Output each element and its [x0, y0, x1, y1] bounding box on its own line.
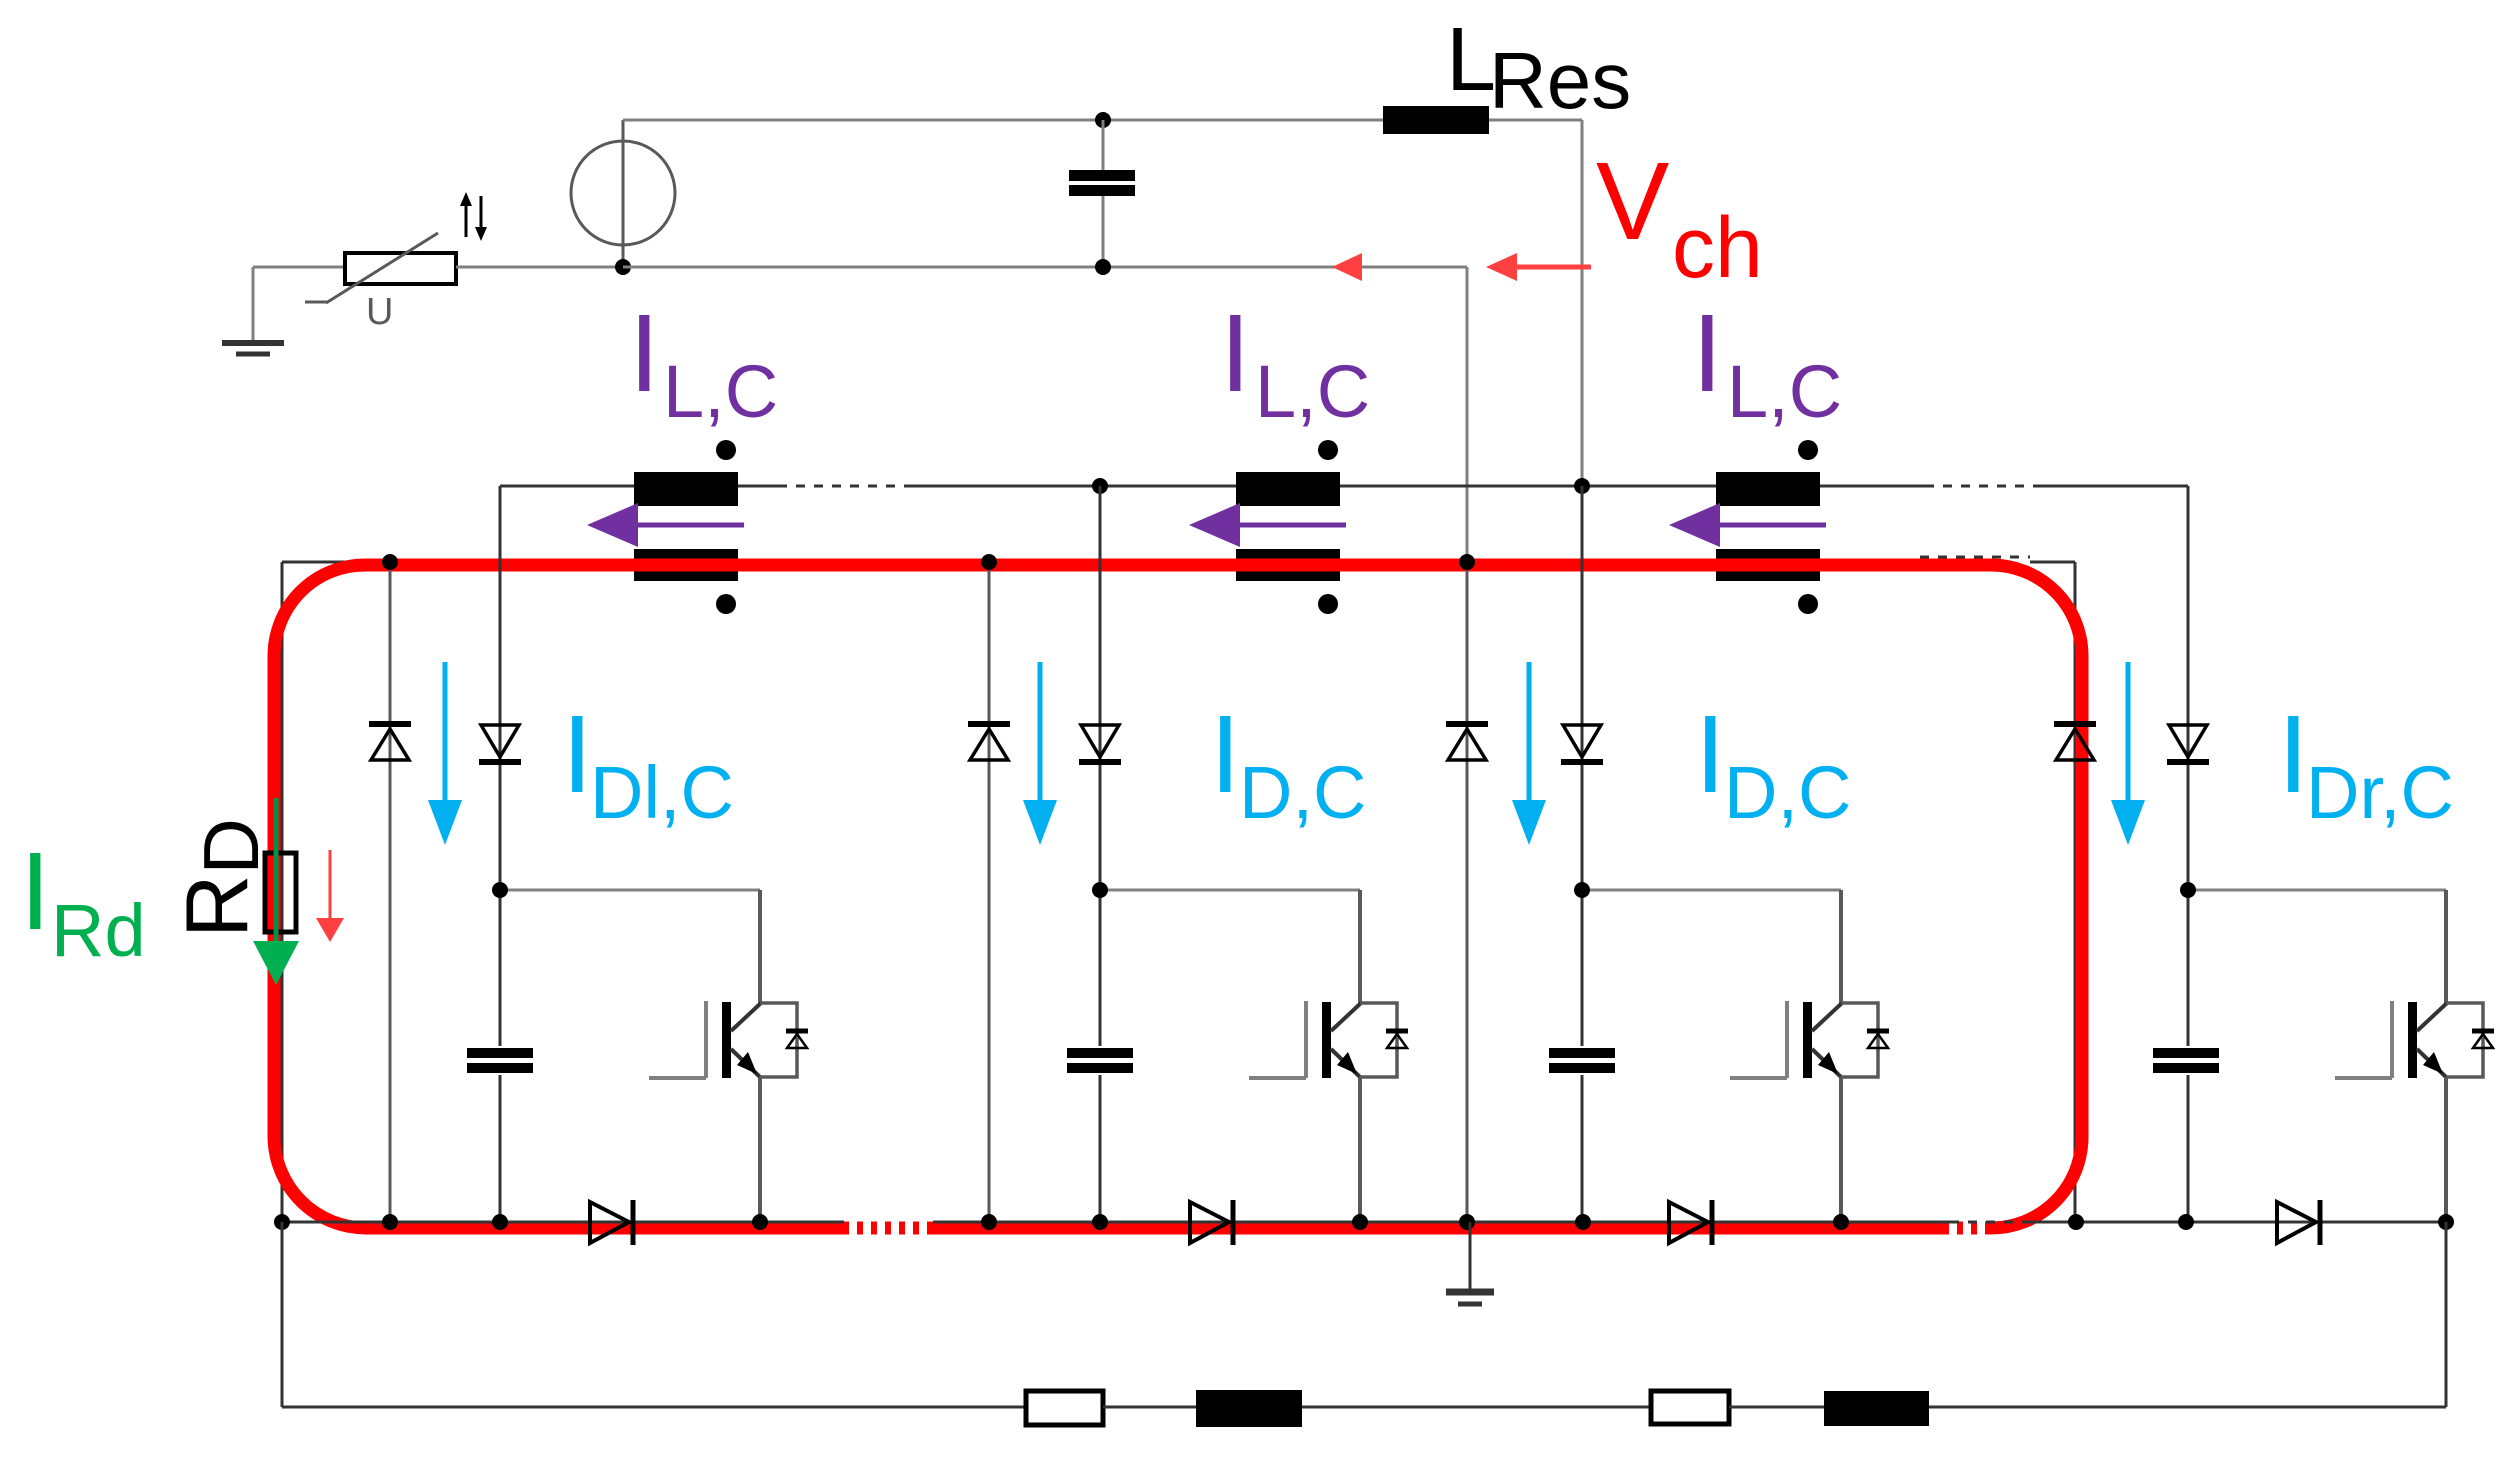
resistor (white box) #1: [1026, 1391, 1103, 1425]
right secondary column x=2075: [2074, 562, 2077, 1222]
coupled inductor L2 windings: [1236, 472, 1340, 581]
current source (circle): [571, 120, 675, 267]
svg-text:ch: ch: [1672, 200, 1763, 296]
diode D2a (conducting up): [968, 724, 1010, 760]
capacitor C2: [1067, 1046, 1133, 1075]
return bus wire 3: [1302, 1406, 1651, 1409]
return bus wire 5: [1929, 1406, 2446, 1409]
node secondary x=989: [981, 554, 997, 570]
return bus wire 4: [1729, 1406, 1824, 1409]
node cell1 x=500 y=890: [492, 882, 508, 898]
diode column (right) cell4 x=2188: [2187, 486, 2190, 1222]
wire cell4 cap-node to IGBT collector: [2188, 889, 2446, 892]
bottom bus (left): [282, 1221, 844, 1224]
svg-text:I: I: [1210, 693, 1241, 816]
ground (middle): [1446, 1222, 1494, 1304]
capacitor C4: [2153, 1046, 2219, 1075]
diode D1a (conducting up): [369, 724, 411, 760]
secondary bus wire: [282, 561, 1920, 564]
red loop dashed segment right-bottom: [1948, 1222, 1991, 1235]
diode D2b (conducting down): [1079, 725, 1121, 762]
wire ground to varistor: [253, 266, 346, 269]
wire cell2 cap-node to IGBT collector: [1100, 889, 1360, 892]
node cell4 x=2188 y=890: [2180, 882, 2196, 898]
series diode Ds2 (bottom bus): [1190, 1200, 1233, 1245]
label I_D,C #3: [1695, 693, 1851, 834]
series diode Ds3 (bottom bus): [1669, 1200, 1712, 1245]
red current loop (bottom-left/left): [274, 565, 844, 1228]
purple current arrow I_L,C #1: [587, 503, 744, 547]
secondary bus wire right: [2030, 561, 2075, 564]
green current line I_Rd: [253, 798, 299, 985]
purple current arrow I_L,C #2: [1189, 503, 1346, 547]
ground (input side): [222, 267, 284, 354]
diode column (right) cell3 x=1582: [1581, 486, 1584, 1222]
node primary bus x=1581: [1574, 478, 1590, 494]
node bottom bus x=989: [981, 1214, 997, 1230]
label I_L,C #1: [629, 292, 778, 433]
node bottom bus x=1467: [1459, 1214, 1475, 1230]
svg-text:I: I: [1692, 292, 1723, 415]
blue current arrow #2: [1023, 662, 1057, 845]
inductor L3 dot bottom: [1798, 594, 1818, 614]
label RD (rotated): [167, 818, 275, 938]
node top of C0: [1095, 112, 1111, 128]
label U: [366, 291, 393, 333]
inductor L1 dot top: [716, 440, 736, 460]
node bottom bus x=390: [382, 1214, 398, 1230]
capacitor C3: [1549, 1046, 1615, 1075]
capacitor C1: [467, 1046, 533, 1075]
svg-text:Dr,C: Dr,C: [2306, 751, 2454, 834]
wire cell1 cap-node to IGBT collector: [500, 889, 760, 892]
inductor (black box) #2: [1824, 1391, 1929, 1426]
inductor LRes: [1383, 106, 1489, 134]
svg-text:I: I: [20, 830, 51, 953]
series diode Ds1 (bottom bus): [590, 1200, 633, 1245]
red return arrow (small): [316, 850, 344, 942]
primary bus wire (left solid): [500, 485, 778, 488]
node bottom bus x=2446: [2438, 1214, 2454, 1230]
label Vch: [1596, 140, 1763, 296]
varistor U (variable resistor): [305, 233, 456, 303]
node cell3 x=1582 y=890: [1574, 882, 1590, 898]
svg-text:I: I: [1695, 693, 1726, 816]
resistor RD box: [265, 853, 296, 932]
node secondary x=390: [382, 554, 398, 570]
svg-text:D,C: D,C: [1724, 751, 1851, 834]
bottom bus (right): [2030, 1221, 2446, 1224]
IGBT Q2: [1249, 890, 1408, 1222]
wire varistor to source node: [456, 266, 623, 269]
diode D4b (conducting down): [2167, 725, 2209, 762]
capacitor C0: [1069, 120, 1135, 267]
label I_D,C #2: [1210, 693, 1366, 834]
primary bus wire (right): [2035, 485, 2188, 488]
svg-text:I: I: [562, 693, 593, 816]
red current loop (top/right): [365, 565, 2082, 1228]
red arrow with tail (Vch current): [1486, 253, 1591, 281]
primary bus dashed gap 1: [778, 485, 905, 488]
red loop dashed segment left-bottom: [844, 1222, 933, 1235]
coupled inductor L3 windings: [1716, 472, 1820, 581]
wire Vch vertical (x=1582 upper): [1581, 120, 1584, 486]
svg-text:Rd: Rd: [51, 889, 146, 972]
svg-text:L,C: L,C: [1727, 350, 1842, 433]
red arrowhead on mid wire: [1332, 253, 1362, 281]
svg-text:I: I: [629, 292, 660, 415]
label I_L,C #2: [1220, 292, 1370, 433]
label I_L,C #3: [1692, 292, 1842, 433]
inductor L2 dot bottom: [1318, 594, 1338, 614]
label LRes: [1446, 10, 1631, 125]
node bottom bus x=1841: [1833, 1214, 1849, 1230]
red loop bottom middle: [933, 1222, 1948, 1235]
primary bus dashed gap 2: [1925, 485, 2035, 488]
blue current arrow #4: [2111, 662, 2145, 845]
node bottom bus x=2076: [2068, 1214, 2084, 1230]
return bus wire 2: [1103, 1406, 1196, 1409]
node cell2 x=1100 y=890: [1092, 882, 1108, 898]
label I_Rd: [20, 830, 146, 972]
diode column (right) cell1 x=500: [499, 486, 502, 1222]
svg-text:I: I: [2278, 693, 2309, 816]
svg-text:U: U: [366, 291, 393, 333]
inductor L3 dot top: [1798, 440, 1818, 460]
node at source bottom: [615, 259, 631, 275]
left column wire x=282: [281, 562, 284, 1222]
svg-text:D,C: D,C: [1239, 751, 1366, 834]
purple current arrow I_L,C #3: [1669, 503, 1826, 547]
inductor (black box) #1: [1196, 1390, 1302, 1427]
return bus left drop: [281, 1222, 284, 1407]
svg-text:V: V: [1596, 140, 1669, 263]
node bottom bus x=282: [274, 1214, 290, 1230]
diode D3a (conducting up): [1446, 724, 1488, 760]
svg-text:L,C: L,C: [1255, 350, 1370, 433]
diode column (left) cell1 x=390: [389, 562, 392, 1222]
return bus right riser: [2445, 1222, 2448, 1407]
label I_Dl,C: [562, 693, 734, 834]
blue current arrow #3: [1512, 662, 1546, 845]
wire source top to LRes: [623, 119, 1384, 122]
node bottom bus x=2186: [2178, 1214, 2194, 1230]
label I_Dr,C: [2278, 693, 2454, 834]
diode column (left) cell3 x=1467: [1466, 562, 1469, 1222]
node primary bus x=1100: [1092, 478, 1108, 494]
svg-text:Dl,C: Dl,C: [590, 751, 734, 834]
svg-text:L,C: L,C: [663, 350, 778, 433]
IGBT Q1: [649, 890, 808, 1222]
inductor L1 dot bottom: [716, 594, 736, 614]
wire LRes to right corner: [1489, 119, 1582, 122]
blue current arrow #1: [428, 662, 462, 845]
svg-text:Res: Res: [1489, 36, 1631, 125]
node bottom bus x=1100: [1092, 1214, 1108, 1230]
diode D4a (conducting up): [2054, 724, 2096, 760]
up-down arrows: [460, 192, 487, 241]
node bottom bus x=760: [752, 1214, 768, 1230]
return bus wire 1: [282, 1406, 1026, 1409]
primary bus wire (middle): [905, 485, 1925, 488]
coupled inductor L1 windings: [634, 472, 738, 581]
diode D1b (conducting down): [479, 725, 521, 762]
inductor L2 dot top: [1318, 440, 1338, 460]
node at C0 bottom: [1095, 259, 1111, 275]
diode D3b (conducting down): [1561, 725, 1603, 762]
node bottom bus x=1360: [1352, 1214, 1368, 1230]
node secondary x=1467: [1459, 554, 1475, 570]
IGBT Q4: [2335, 890, 2494, 1222]
series diode Ds4 (bottom bus): [2277, 1200, 2320, 1245]
svg-text:I: I: [1220, 292, 1251, 415]
bottom bus dashed gap 2: [1950, 1221, 2030, 1224]
diode column (right) cell2 x=1100: [1099, 486, 1102, 1222]
secondary bus dashed gap: [1920, 556, 2030, 559]
wire cell3 cap-node to IGBT collector: [1582, 889, 1841, 892]
wire mid horizontal y=267: [623, 266, 1467, 269]
resistor (white box) #2: [1651, 1391, 1729, 1424]
node bottom bus x=1583: [1575, 1214, 1591, 1230]
node bottom bus x=500: [492, 1214, 508, 1230]
IGBT Q3: [1730, 890, 1889, 1222]
wire x=1467 upper segment: [1466, 267, 1469, 562]
diode column (left) cell2 x=989: [988, 562, 991, 1222]
bottom bus (middle): [933, 1221, 1950, 1224]
